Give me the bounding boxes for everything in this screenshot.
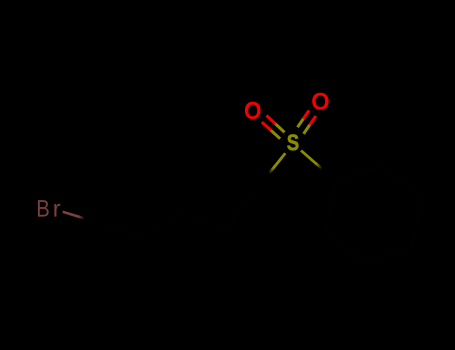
atom label Br xyxy=(38,200,60,216)
atom label O (right) xyxy=(312,93,328,110)
bond S-CH2 (left stub) xyxy=(258,153,285,187)
atom label O (left) xyxy=(245,102,261,119)
double bond S=O left, line 1 xyxy=(267,116,285,133)
faint carbon skeleton (nearly invisible, as in source) xyxy=(98,166,422,263)
wire chain C1-C2-C3-C4-C5 xyxy=(98,187,258,236)
atom label S xyxy=(287,134,298,150)
bond Br-C xyxy=(63,212,98,223)
double bond S=O left, line 2 xyxy=(262,122,280,139)
bond S-phenyl (right stub) xyxy=(301,151,336,182)
double bond S=O right, line 1 xyxy=(298,111,310,128)
phenyl ring xyxy=(326,166,422,263)
double bond S=O right, line 2 xyxy=(304,116,316,134)
